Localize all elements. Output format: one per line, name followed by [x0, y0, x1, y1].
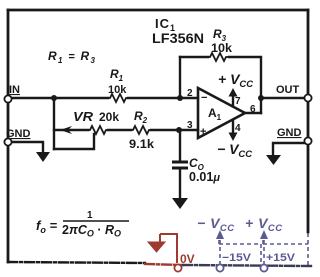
svg-text:fo =: fo = — [36, 218, 57, 235]
-Vcc arrow at pin4 — [229, 133, 238, 142]
-Vcc dashed lead with arrow — [219, 240, 221, 264]
frame right border — [307, 10, 310, 232]
feedback top wire to R3 — [180, 56, 208, 58]
svg-text:GND: GND — [6, 128, 31, 140]
frame top border — [8, 9, 308, 12]
rail blue-black segment — [183, 265, 311, 266]
resistor R2 — [131, 126, 151, 134]
+15V supply dashed box — [263, 233, 308, 265]
terminal OUT circle — [304, 94, 311, 101]
+Vcc arrow at pin7 — [229, 88, 238, 97]
svg-text:2: 2 — [187, 88, 193, 99]
svg-text:IN: IN — [9, 84, 20, 96]
VR wiper arrowhead — [60, 126, 74, 134]
op-amp pin7 supply line — [232, 95, 234, 106]
terminal -15V circle (blue) — [216, 264, 223, 271]
junction node at IN branch — [51, 95, 57, 101]
resistor R1 — [108, 94, 128, 102]
terminal GND-right circle — [304, 137, 311, 144]
svg-text:20k: 20k — [99, 112, 120, 124]
wire R2 to op-amp pin3 — [151, 129, 198, 131]
svg-text:1: 1 — [87, 210, 93, 221]
frame bottom border (0V rail, dash-dot) — [8, 262, 145, 263]
svg-text:OUT: OUT — [276, 84, 300, 96]
pin6 output wire — [245, 112, 261, 114]
red wire to 0V terminal — [160, 234, 177, 263]
svg-text:−: − — [201, 92, 207, 104]
capacitor C0 plates — [172, 162, 188, 168]
svg-text:6: 6 — [250, 104, 256, 115]
junction node pin3/C0 — [176, 127, 182, 133]
-15V supply dashed box — [219, 240, 261, 265]
wire GND-left — [12, 142, 43, 152]
wire lower branch to VR — [54, 129, 88, 131]
svg-text:7: 7 — [235, 96, 241, 107]
terminal GND-left circle — [4, 138, 11, 145]
svg-text:+15V: +15V — [266, 252, 296, 264]
op-amp pin4 supply line — [232, 121, 234, 134]
svg-text:VR: VR — [73, 110, 93, 124]
frame left border — [7, 10, 10, 262]
svg-text:+: + — [200, 126, 206, 138]
wire IN to R1 — [8, 97, 108, 99]
terminal +15V circle (blue) — [260, 264, 267, 271]
ground symbol under C0 — [172, 198, 188, 209]
svg-text:R1 = R3: R1 = R3 — [48, 49, 96, 65]
wire C0 to ground — [179, 170, 181, 198]
ground symbol left — [36, 152, 50, 162]
svg-text:3: 3 — [187, 120, 193, 131]
svg-text:10k: 10k — [211, 43, 233, 55]
potentiometer VR zigzag — [88, 126, 108, 134]
VR wiper loop wire — [54, 134, 94, 149]
svg-text:10k: 10k — [108, 84, 127, 96]
ground symbol right — [266, 155, 281, 165]
junction node output — [258, 95, 264, 101]
op-amp A1 triangle — [198, 88, 245, 138]
wire GND-right — [273, 143, 304, 155]
feedback wire R3 to output corner — [229, 57, 261, 113]
svg-text:0.01μ: 0.01μ — [189, 170, 220, 184]
wire junction branch down — [53, 98, 55, 149]
svg-text:GND: GND — [277, 127, 302, 139]
resistor R3 — [208, 53, 228, 61]
svg-text:−15V: −15V — [222, 252, 252, 264]
svg-text:9.1k: 9.1k — [129, 137, 154, 151]
terminal 0V circle (red) — [174, 264, 181, 271]
formula fo = 1/(2pi Co Ro) — [36, 210, 129, 239]
wire pin3 node down to capacitor C0 — [179, 130, 181, 160]
terminal IN circle — [4, 95, 11, 102]
svg-text:4: 4 — [235, 123, 241, 134]
+Vcc dashed lead with arrow — [263, 240, 265, 264]
rail red segment — [145, 264, 183, 265]
svg-text:0V: 0V — [180, 252, 195, 266]
wire VR to R2 — [108, 129, 131, 131]
output node to OUT terminal — [261, 97, 304, 99]
feedback wire up from pin2 node — [179, 57, 181, 98]
red ground symbol (0V annotation) — [148, 234, 165, 252]
wire R1 to op-amp pin2 — [128, 97, 198, 99]
junction node pin2/feedback — [177, 95, 183, 101]
svg-text:LF356N: LF356N — [152, 31, 204, 46]
